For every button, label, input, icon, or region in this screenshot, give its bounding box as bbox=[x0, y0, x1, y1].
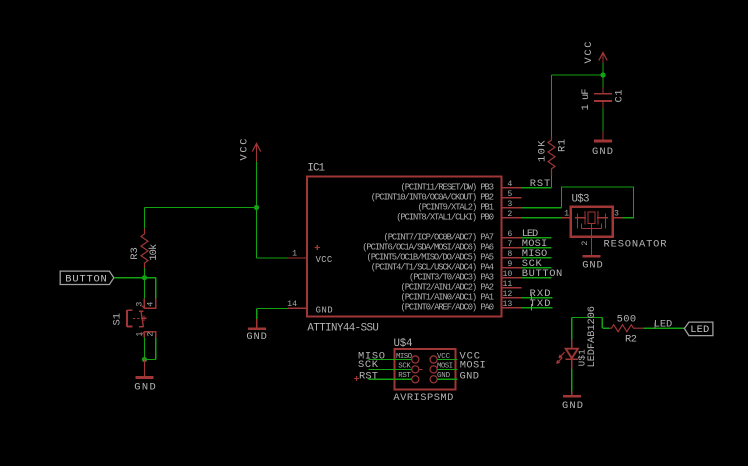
svg-text:6: 6 bbox=[507, 230, 512, 239]
svg-text:8: 8 bbox=[507, 250, 512, 259]
svg-text:1 uF: 1 uF bbox=[580, 89, 592, 111]
svg-text:C1: C1 bbox=[613, 90, 625, 103]
svg-text:(PCINT4/T1/SCL/USCK/ADC4) PA4: (PCINT4/T1/SCL/USCK/ADC4) PA4 bbox=[371, 263, 494, 273]
svg-text:2: 2 bbox=[147, 332, 156, 337]
svg-text:GND: GND bbox=[246, 331, 267, 343]
svg-text:MOSI: MOSI bbox=[460, 359, 486, 371]
svg-text:5: 5 bbox=[507, 190, 512, 199]
svg-text:LED: LED bbox=[690, 324, 709, 336]
svg-text:U$3: U$3 bbox=[572, 194, 590, 206]
svg-text:3: 3 bbox=[507, 200, 512, 209]
svg-text:7: 7 bbox=[507, 240, 512, 249]
svg-text:TXD: TXD bbox=[530, 298, 551, 310]
svg-text:(PCINT6/OC1A/SDA/MOSI/ADC6) PA: (PCINT6/OC1A/SDA/MOSI/ADC6) PA6 bbox=[362, 243, 494, 253]
svg-text:(PCINT8/XTAL1/CLKI) PB0: (PCINT8/XTAL1/CLKI) PB0 bbox=[396, 213, 494, 223]
svg-text:10: 10 bbox=[502, 270, 512, 279]
svg-text:1: 1 bbox=[564, 210, 569, 219]
svg-text:R2: R2 bbox=[625, 333, 637, 345]
svg-text:2: 2 bbox=[507, 210, 512, 219]
svg-text:4: 4 bbox=[507, 180, 512, 189]
svg-text:(PCINT0/AREF/ADC0) PA0: (PCINT0/AREF/ADC0) PA0 bbox=[401, 303, 495, 313]
svg-text:VCC: VCC bbox=[583, 42, 595, 64]
svg-text:RST: RST bbox=[359, 371, 378, 383]
svg-text:ATTINY44-SSU: ATTINY44-SSU bbox=[307, 323, 379, 335]
svg-text:(PCINT7/ICP/OC0B/ADC7) PA7: (PCINT7/ICP/OC0B/ADC7) PA7 bbox=[384, 233, 495, 243]
svg-text:10K: 10K bbox=[536, 140, 548, 162]
svg-text:VCC: VCC bbox=[239, 139, 251, 161]
svg-text:11: 11 bbox=[502, 280, 512, 289]
svg-text:(PCINT11/RESET/DW) PB3: (PCINT11/RESET/DW) PB3 bbox=[401, 183, 495, 193]
svg-text:R3: R3 bbox=[129, 247, 141, 260]
svg-text:BUTTON: BUTTON bbox=[65, 273, 107, 285]
svg-text:GND: GND bbox=[562, 400, 583, 412]
svg-text:(PCINT10/INT0/OC0A/CKOUT) PB2: (PCINT10/INT0/OC0A/CKOUT) PB2 bbox=[371, 193, 494, 203]
svg-text:(PCINT9/XTAL2) PB1: (PCINT9/XTAL2) PB1 bbox=[418, 203, 495, 213]
svg-text:(PCINT2/AIN1/ADC2) PA2: (PCINT2/AIN1/ADC2) PA2 bbox=[401, 283, 495, 293]
svg-text:S1: S1 bbox=[112, 313, 124, 326]
svg-text:BUTTON: BUTTON bbox=[522, 268, 563, 280]
svg-text:SCK: SCK bbox=[358, 359, 379, 371]
svg-text:LEDFAB1206: LEDFAB1206 bbox=[586, 306, 598, 368]
svg-text:13: 13 bbox=[502, 300, 512, 309]
svg-text:GND: GND bbox=[134, 381, 156, 393]
svg-text:LED: LED bbox=[654, 319, 673, 331]
svg-text:(PCINT3/T0/ADC3) PA3: (PCINT3/T0/ADC3) PA3 bbox=[409, 273, 494, 283]
svg-text:IC1: IC1 bbox=[307, 163, 325, 175]
svg-text:VCC: VCC bbox=[316, 255, 333, 265]
svg-text:(PCINT5/OC1B/MISO/DO/ADC5) PA5: (PCINT5/OC1B/MISO/DO/ADC5) PA5 bbox=[367, 253, 495, 263]
svg-text:3: 3 bbox=[614, 210, 619, 219]
svg-text:3: 3 bbox=[135, 302, 144, 307]
svg-text:R1: R1 bbox=[556, 139, 568, 152]
svg-text:GND: GND bbox=[460, 371, 480, 383]
svg-text:2: 2 bbox=[581, 241, 590, 246]
svg-text:RST: RST bbox=[530, 178, 551, 190]
svg-text:12: 12 bbox=[502, 290, 512, 299]
svg-text:(PCINT1/AIN0/ADC1) PA1: (PCINT1/AIN0/ADC1) PA1 bbox=[401, 293, 495, 303]
svg-text:AVRISPSMD: AVRISPSMD bbox=[393, 392, 453, 404]
svg-text:1: 1 bbox=[135, 332, 144, 337]
svg-text:1: 1 bbox=[292, 250, 297, 259]
svg-text:GND: GND bbox=[582, 260, 603, 272]
svg-text:500: 500 bbox=[617, 314, 637, 326]
svg-text:10k: 10k bbox=[148, 244, 160, 261]
svg-text:9: 9 bbox=[507, 260, 512, 269]
svg-text:14: 14 bbox=[287, 300, 297, 309]
svg-text:GND: GND bbox=[316, 306, 333, 316]
svg-text:GND: GND bbox=[592, 146, 613, 158]
svg-text:U$4: U$4 bbox=[394, 338, 413, 350]
svg-text:4: 4 bbox=[147, 302, 156, 307]
svg-text:RESONATOR: RESONATOR bbox=[604, 239, 667, 251]
